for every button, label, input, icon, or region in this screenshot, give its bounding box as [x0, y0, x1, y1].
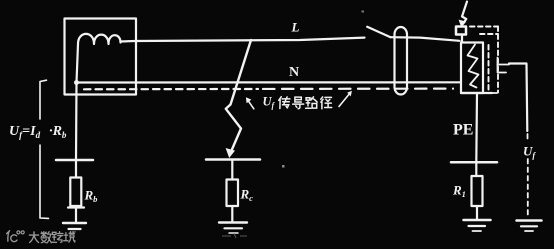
- wire bar to Rc: [231, 160, 233, 180]
- hanzi 传 (conduction path text): [279, 97, 290, 109]
- transformer T box: [65, 19, 137, 95]
- switch blade on L: [367, 27, 390, 37]
- wire PE to R1: [475, 162, 477, 176]
- lightning bolt (strike to line L): [226, 40, 251, 151]
- watermark hanzi 境: [64, 232, 75, 242]
- ground (Rc): [219, 221, 247, 223]
- PE conductor: [475, 93, 478, 162]
- watermark hanzi 数: [41, 232, 52, 243]
- annotation arrow to PEN path: [339, 93, 351, 107]
- SPD box U1: [461, 43, 483, 94]
- dashed inner vertical: [488, 45, 490, 90]
- enclosure bottom: [461, 92, 492, 94]
- dashed enclosure right: [497, 27, 499, 93]
- wire Rb to ground: [75, 206, 77, 222]
- wire Rc to ground: [231, 206, 233, 221]
- stray gray speck: [362, 11, 365, 13]
- svg-text:PE: PE: [453, 122, 473, 139]
- lightning bolt 2 (strike to service entrance): [462, 2, 467, 24]
- wire bar to Rb: [75, 160, 77, 178]
- faint remnant marks bottom middle: [222, 234, 247, 239]
- wire terminal to SPD box: [461, 35, 463, 43]
- service terminal box: [456, 27, 466, 35]
- wire R1 to ground: [476, 206, 478, 219]
- cable loop (conduit oval): [395, 27, 408, 95]
- resistor Rc: [227, 180, 239, 207]
- dashed enclosure top inner: [480, 33, 498, 35]
- hanzi 导: [293, 97, 304, 109]
- wire L continues to service entrance: [391, 37, 460, 41]
- dashed enclosure top: [470, 26, 498, 28]
- svg-text:N: N: [289, 65, 299, 80]
- wire L (line conductor): [121, 38, 365, 42]
- wire: winding left lead down to earth bar: [76, 44, 78, 160]
- PEN dashed conductor: [84, 88, 258, 91]
- watermark logo: [7, 231, 25, 242]
- measurement bracket Uf: [40, 80, 47, 119]
- watermark hanzi 大: [29, 232, 38, 243]
- junction node (PEN origin): [74, 80, 79, 85]
- svg-text:L: L: [291, 20, 300, 35]
- faint speck: [282, 165, 285, 168]
- ground (R1): [464, 219, 491, 222]
- earth surface bar (middle): [206, 158, 260, 161]
- hanzi 径: [321, 97, 332, 109]
- ground (U1 remote earth): [517, 219, 542, 222]
- watermark hanzi 跨: [52, 232, 63, 243]
- watermark tm mark: [74, 231, 77, 233]
- resistor R1: [472, 176, 483, 206]
- hanzi 路: [306, 97, 317, 108]
- terminal bar under Rb: [68, 206, 84, 208]
- U1 dashed measuring line: [527, 134, 529, 140]
- contact terminal marks: [497, 58, 499, 72]
- annotation arrow to bolt: [248, 100, 254, 109]
- ground (Rb): [63, 222, 86, 224]
- earth surface bar (left): [56, 159, 93, 162]
- wire N (neutral conductor): [78, 81, 462, 83]
- resistor Rb: [70, 178, 81, 207]
- SPD zigzag element: [468, 45, 479, 88]
- earth surface bar (right): [451, 161, 497, 164]
- wire to U1 measuring line: [509, 64, 527, 132]
- transformer winding: [78, 34, 121, 44]
